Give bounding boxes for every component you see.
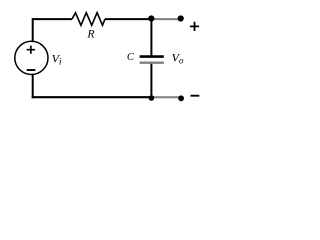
voltage source Vi circle [15, 41, 48, 74]
node: bottom output terminal dot [178, 95, 184, 101]
node: top junction dot [148, 15, 154, 21]
wire: bottom horizontal segment [32, 96, 152, 98]
− symbol inside source [27, 69, 36, 71]
capacitor C top lead [150, 20, 152, 55]
svg-text:R: R [86, 28, 94, 41]
svg-text:Vo: Vo [172, 51, 184, 66]
node: top output terminal dot [178, 15, 184, 21]
svg-text:Vi: Vi [52, 52, 62, 67]
wire: top-left horizontal segment [32, 18, 72, 20]
wire: left vertical lower segment [32, 74, 34, 98]
label: − output polarity [191, 95, 200, 97]
wire: top output lead (gray) [151, 18, 180, 20]
label: + output polarity [190, 22, 199, 31]
capacitor C bottom lead [150, 64, 152, 97]
wire: resistor to top junction [105, 18, 152, 20]
+ symbol inside source [27, 46, 35, 54]
resistor R [72, 13, 105, 26]
svg-text:C: C [127, 52, 135, 63]
capacitor C top plate [140, 55, 164, 58]
node: bottom junction dot [149, 95, 155, 101]
wire: bottom output lead (gray) [151, 96, 181, 98]
wire: left vertical upper segment [32, 18, 34, 41]
capacitor C bottom plate (gray) [140, 62, 164, 64]
